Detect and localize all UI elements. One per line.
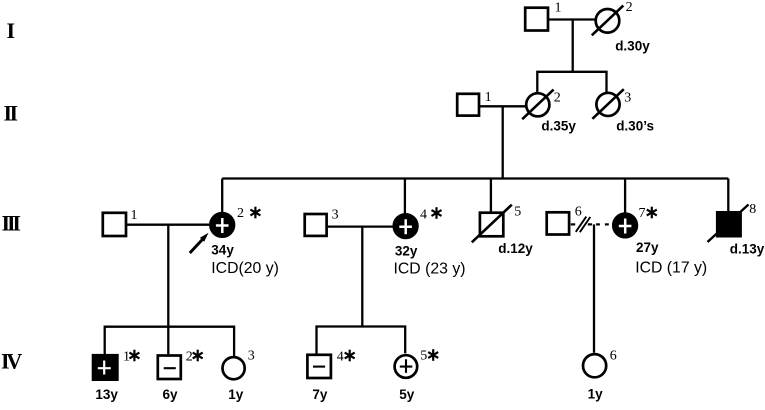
asterisk for III-4 xyxy=(432,207,442,219)
svg-text:32y: 32y xyxy=(395,243,418,258)
svg-text:1: 1 xyxy=(123,350,130,365)
svg-text:III: III xyxy=(2,210,21,235)
svg-text:5y: 5y xyxy=(399,387,415,402)
svg-text:1y: 1y xyxy=(588,387,604,402)
asterisk for III-2 xyxy=(250,207,260,219)
wire: III-6/III-7 separated couple dashed line xyxy=(571,223,609,225)
svg-text:1: 1 xyxy=(131,208,138,223)
individual I-2: female circle, deceased xyxy=(592,0,650,54)
svg-text:6y: 6y xyxy=(163,387,179,402)
individual II-1: male square xyxy=(457,94,479,116)
svg-text:II: II xyxy=(4,100,18,125)
svg-text:13y: 13y xyxy=(95,387,118,402)
wire: gen IV left sibship line xyxy=(105,327,234,356)
separation double slash xyxy=(576,217,591,233)
svg-text:2: 2 xyxy=(237,206,244,221)
wire: gen II couple line xyxy=(480,105,525,107)
svg-text:3: 3 xyxy=(624,91,631,106)
svg-text:d.12y: d.12y xyxy=(498,241,533,256)
wire: drop to III-4 xyxy=(404,179,406,215)
svg-text:1y: 1y xyxy=(228,387,244,402)
svg-text:2: 2 xyxy=(626,0,633,15)
svg-text:ICD (23 y): ICD (23 y) xyxy=(394,261,466,278)
svg-text:7: 7 xyxy=(639,206,646,221)
wire: III-3/III-4 couple line xyxy=(328,225,394,227)
individual III-6: male square (separated spouse) xyxy=(547,212,569,234)
individual I-1: male square xyxy=(525,8,548,31)
individual IV-4: male square, minus xyxy=(307,350,343,379)
svg-text:ICD (17 y): ICD (17 y) xyxy=(635,260,707,277)
wire: gen I descent drop xyxy=(572,20,574,72)
svg-text:2: 2 xyxy=(554,91,561,106)
asterisk for IV-4 xyxy=(345,350,355,362)
svg-text:d.30’s: d.30’s xyxy=(616,118,654,133)
svg-text:6: 6 xyxy=(610,349,617,364)
svg-text:34y: 34y xyxy=(211,242,234,257)
individual III-5: male square, deceased xyxy=(472,205,534,257)
asterisk for III-7 xyxy=(647,207,657,219)
svg-text:6: 6 xyxy=(575,205,582,220)
individual IV-6: female circle xyxy=(583,349,617,402)
individual III-8: affected male square, deceased xyxy=(708,202,765,257)
individual IV-1: affected male square, carrier plus xyxy=(92,350,130,382)
wire: III-1/III-2 descent to IV xyxy=(167,225,169,355)
svg-text:8: 8 xyxy=(749,202,756,217)
proband arrow xyxy=(190,233,209,253)
asterisk for IV-5 xyxy=(428,349,438,361)
individual IV-2: male square, minus xyxy=(158,350,193,380)
wire: III-3/III-4 descent to IV xyxy=(361,227,363,327)
individual III-3: male square xyxy=(305,214,327,236)
svg-text:I: I xyxy=(7,18,15,43)
wire: gen IV mid sibship line xyxy=(317,327,406,354)
wire: drop to III-7 xyxy=(624,179,626,214)
wire: III-1/III-2 couple line xyxy=(127,224,209,226)
svg-text:7y: 7y xyxy=(312,387,328,402)
svg-text:3: 3 xyxy=(332,207,339,222)
wire: drop to III-2 xyxy=(221,179,223,213)
svg-text:1: 1 xyxy=(555,1,562,16)
svg-text:5: 5 xyxy=(514,205,521,220)
asterisk for IV-1 xyxy=(129,350,139,362)
wire: III-6/III-7 descent to IV-6 xyxy=(593,224,595,352)
individual IV-3: female circle xyxy=(223,349,255,402)
wire: gen II descent drop xyxy=(502,106,504,178)
wire: drop to III-5 xyxy=(490,179,492,213)
wire: drop to III-8 xyxy=(727,179,729,212)
individual II-2: female circle, deceased xyxy=(522,90,576,134)
svg-text:5: 5 xyxy=(420,349,427,364)
individual III-2: affected female circle (proband), carrier plus xyxy=(210,206,244,237)
asterisk for IV-2 xyxy=(193,350,203,362)
svg-text:27y: 27y xyxy=(636,240,659,255)
individual III-7: affected female circle, carrier plus xyxy=(613,206,645,237)
individual IV-5: female circle, carrier plus xyxy=(395,349,428,378)
wire: gen II sibship line xyxy=(537,72,606,93)
wire: gen III sibship line xyxy=(222,177,728,179)
svg-text:4: 4 xyxy=(420,207,427,222)
individual III-4: affected female circle, carrier plus xyxy=(394,207,427,238)
individual III-1: male square xyxy=(103,213,126,236)
svg-text:2: 2 xyxy=(186,350,193,365)
svg-text:d.35y: d.35y xyxy=(541,118,576,133)
svg-text:3: 3 xyxy=(248,349,255,364)
individual II-3: female circle, deceased xyxy=(592,89,654,133)
svg-text:d.30y: d.30y xyxy=(615,39,650,54)
svg-text:d.13y: d.13y xyxy=(730,242,765,257)
svg-text:ICD(20 y): ICD(20 y) xyxy=(211,260,279,277)
wire: gen I couple line xyxy=(548,18,595,20)
svg-text:4: 4 xyxy=(337,350,344,365)
svg-text:1: 1 xyxy=(485,90,492,105)
